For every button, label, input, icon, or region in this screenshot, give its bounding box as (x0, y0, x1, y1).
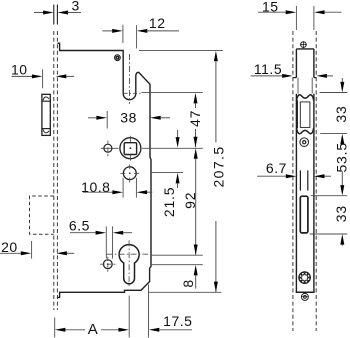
svg-text:3: 3 (71, 0, 79, 13)
svg-text:33: 33 (333, 205, 349, 222)
svg-text:10.8: 10.8 (81, 179, 110, 195)
svg-text:15: 15 (262, 0, 279, 14)
svg-text:10: 10 (11, 61, 28, 77)
svg-text:33: 33 (333, 105, 349, 122)
svg-text:38: 38 (120, 110, 137, 126)
svg-text:6.5: 6.5 (69, 217, 90, 233)
svg-text:12: 12 (149, 15, 166, 31)
svg-text:92: 92 (182, 192, 198, 209)
svg-text:6.7: 6.7 (266, 160, 287, 176)
svg-text:53.5: 53.5 (334, 142, 350, 172)
svg-text:21.5: 21.5 (161, 187, 177, 217)
svg-text:11.5: 11.5 (254, 61, 282, 77)
svg-text:8: 8 (180, 279, 196, 288)
svg-text:20: 20 (1, 239, 18, 255)
svg-text:A: A (88, 321, 99, 338)
svg-text:47: 47 (187, 110, 203, 127)
svg-text:17.5: 17.5 (163, 313, 192, 329)
svg-text:207.5: 207.5 (210, 145, 226, 187)
